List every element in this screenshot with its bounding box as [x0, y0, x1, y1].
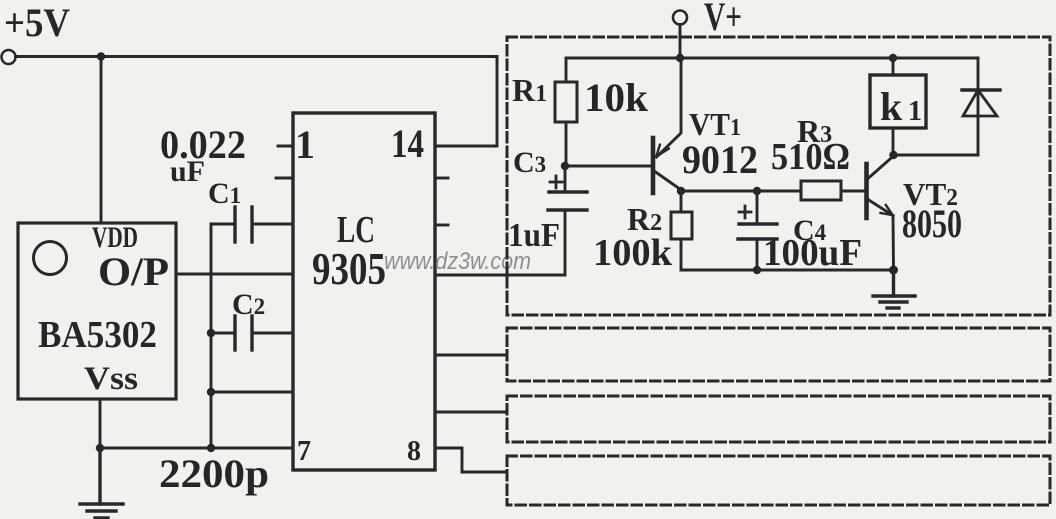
wire vertical bus left of IC — [210, 224, 213, 448]
wire IC to dashed block 2 — [435, 354, 507, 357]
svg-text:100uF: 100uF — [763, 232, 862, 274]
svg-text:uF: uF — [170, 155, 205, 188]
wire ground bus to IC pin7 — [100, 447, 293, 450]
node bus/C2 — [207, 329, 215, 337]
wire BA5302 O/P output to IC — [176, 273, 293, 276]
svg-text:BA5302: BA5302 — [38, 314, 157, 356]
ground symbol right — [873, 270, 915, 308]
capacitor C3 1uF — [548, 166, 587, 275]
dashed box 1 — [507, 37, 1050, 315]
svg-text:O/P: O/P — [98, 249, 169, 294]
wire inner supply rail — [566, 57, 978, 60]
pin stub right upper — [435, 177, 448, 180]
svg-text:1: 1 — [908, 96, 922, 127]
wire V+ down — [679, 25, 682, 59]
resistor R3 510ohm — [757, 181, 864, 200]
node C4 top — [753, 187, 761, 195]
wire IC to C3 bottom — [435, 274, 565, 277]
wire pin 8 step to dashed block 4 — [435, 448, 507, 472]
node V+ rail — [676, 54, 684, 62]
terminal +5V input circle — [2, 50, 16, 64]
wire rail corner down to pin 14 — [435, 57, 497, 147]
diode VD1 — [962, 58, 1000, 155]
node VT2 emitter — [889, 266, 898, 275]
svg-text:8: 8 — [407, 436, 421, 467]
relay K1 coil box — [870, 58, 926, 155]
svg-text:Vss: Vss — [84, 361, 138, 397]
svg-text:14: 14 — [391, 121, 424, 166]
capacitor C2 — [211, 316, 293, 350]
IC U2 BA5302 box — [18, 223, 176, 399]
svg-text:+5V: +5V — [4, 0, 70, 45]
svg-text:100k: 100k — [593, 232, 673, 274]
wire collector to diode — [894, 154, 979, 157]
capacitor C4 100uF — [738, 191, 777, 270]
svg-text:510Ω: 510Ω — [771, 136, 850, 178]
wire collector bus — [681, 190, 801, 193]
dashed box 3 — [507, 396, 1050, 442]
terminal V+ — [673, 11, 687, 25]
node junction at BA5302 supply — [97, 52, 105, 60]
wire +5V rail top — [16, 55, 498, 58]
svg-text:7: 7 — [297, 436, 311, 467]
pin 1 stub — [278, 145, 293, 148]
IC U1 LC9305 box — [293, 113, 435, 470]
svg-text:k: k — [880, 84, 903, 129]
plus sign C4 — [739, 206, 751, 218]
node bus bottom — [207, 444, 215, 452]
wire BA5302 Vss to ground — [99, 399, 102, 448]
resistor R2 100k — [671, 191, 692, 270]
svg-text:2200p: 2200p — [159, 451, 269, 496]
dashed box 4 — [507, 456, 1050, 505]
BA5302 index circle — [34, 242, 67, 275]
node relay rail — [889, 54, 897, 62]
wire bus to IC mid — [211, 391, 293, 394]
svg-text:9012: 9012 — [682, 137, 758, 182]
wire from rail down to BA5302 VDD — [100, 57, 103, 224]
pin 2 stub — [276, 177, 293, 180]
transistor VT1 9012 — [653, 58, 682, 193]
dashed box 2 — [507, 328, 1050, 381]
svg-text:8050: 8050 — [902, 201, 962, 246]
wire emitter bottom bus — [681, 269, 893, 272]
node bus mid — [207, 388, 215, 396]
node R1/C3/base — [561, 162, 569, 170]
svg-text:1uF: 1uF — [508, 217, 560, 254]
wire IC to dashed block 3 — [435, 411, 507, 414]
capacitor C1 — [211, 207, 293, 242]
node VT1 collector — [677, 187, 685, 195]
transistor VT2 8050 — [867, 156, 894, 270]
pin stub right mid — [435, 224, 448, 227]
wire C3 node to VT1 base — [565, 165, 652, 168]
ground symbol left — [80, 448, 123, 518]
plus sign C3 — [550, 176, 562, 188]
resistor R1 10k — [555, 58, 577, 166]
node junction Vss/ground — [96, 444, 104, 452]
node C4 bottom — [753, 266, 761, 274]
svg-text:1: 1 — [295, 122, 315, 167]
svg-text:9305: 9305 — [312, 243, 386, 294]
svg-text:V+: V+ — [704, 0, 742, 39]
node VT2 collector — [889, 151, 897, 159]
svg-text:10k: 10k — [584, 75, 649, 120]
